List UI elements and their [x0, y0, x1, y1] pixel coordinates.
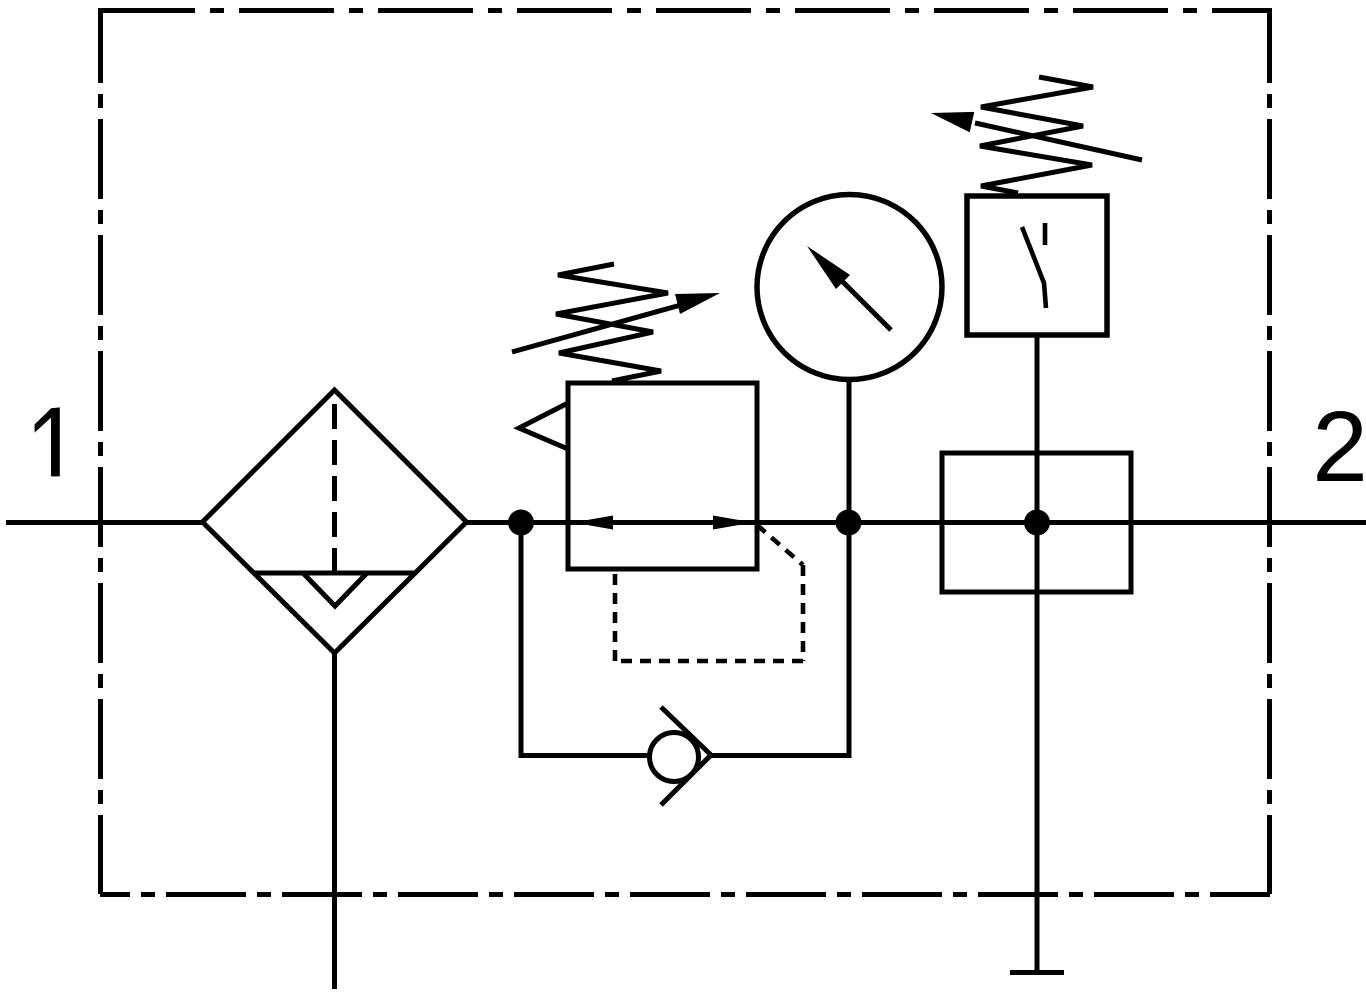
pilot control line (dashed) — [615, 525, 803, 661]
pressure regulator R1 body — [568, 383, 757, 569]
regulator flow arrow right — [713, 516, 753, 530]
wire: gauge stem — [847, 378, 852, 523]
wire: main line from port 1 to filter — [6, 520, 204, 525]
wire: main line from filter through regulator and valve to port 2 — [464, 520, 1366, 525]
valve spring — [980, 77, 1093, 193]
wire: bypass bottom left — [519, 753, 652, 758]
enclosure boundary (dash-dot assembly frame) — [100, 8, 1270, 895]
wire: bypass right riser — [847, 523, 852, 756]
regulator adjustment arrow — [512, 293, 720, 352]
node B (junction after regulator) — [836, 510, 862, 536]
valve adjustment arrow — [931, 112, 1142, 160]
port label 1 — [35, 407, 60, 476]
node A (junction before regulator) — [508, 510, 534, 536]
pressure switch box U1 — [967, 196, 1107, 335]
exhaust end bar — [1010, 970, 1064, 975]
pressure gauge G1 — [757, 195, 942, 380]
wire: condensate drain line — [332, 653, 337, 989]
wire: valve actuation riser and exhaust drop — [1035, 335, 1040, 972]
wire: bypass left drop — [519, 523, 524, 756]
regulator flow arrow left — [573, 516, 613, 530]
filter with water separator F1 — [203, 390, 467, 653]
switch blade — [1022, 227, 1046, 308]
on-off valve body (in main line) — [942, 453, 1131, 592]
node C (junction inside valve) — [1024, 510, 1050, 536]
check valve V1 — [650, 707, 712, 805]
wire: bypass bottom right — [709, 753, 852, 758]
regulator relieving vent triangle — [519, 403, 568, 449]
regulator spring — [556, 264, 668, 381]
svg-text:2: 2 — [1312, 391, 1366, 503]
switch contact tick — [1043, 223, 1048, 245]
